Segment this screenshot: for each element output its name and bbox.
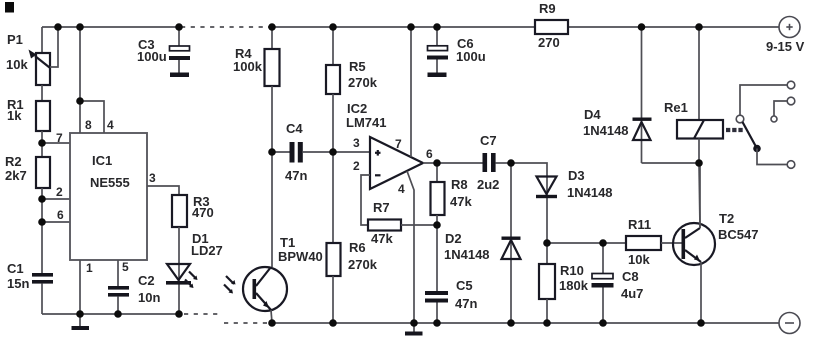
node D4 Re1	[695, 159, 703, 167]
diode D3	[511, 163, 557, 243]
svg-text:C2: C2	[138, 273, 155, 288]
wire bottom rail left	[42, 313, 179, 315]
svg-text:C4: C4	[286, 121, 303, 136]
svg-text:C7: C7	[480, 133, 497, 148]
wire base T2	[547, 242, 626, 244]
svg-text:2u2: 2u2	[477, 177, 499, 192]
wire R4 from rail	[271, 27, 273, 49]
node rail R6	[329, 319, 337, 327]
transistor T2	[673, 223, 715, 265]
svg-text:47n: 47n	[285, 168, 307, 183]
wire P1 wiper	[50, 27, 58, 67]
svg-text:6: 6	[426, 147, 433, 161]
wire node to R6	[332, 152, 334, 243]
svg-text:10k: 10k	[6, 57, 28, 72]
svg-text:4u7: 4u7	[621, 286, 643, 301]
wire C2 to rail	[117, 297, 119, 314]
wire pin2	[42, 198, 70, 200]
node C4 left	[268, 148, 276, 156]
wire R5 to node	[332, 94, 334, 152]
node rail C8	[599, 319, 607, 327]
resistor R7	[368, 220, 401, 231]
node rail pin1	[76, 310, 84, 318]
wire R4 to T1	[271, 86, 273, 267]
svg-text:1N4148: 1N4148	[583, 123, 629, 138]
svg-text:2k7: 2k7	[5, 168, 27, 183]
svg-text:R2: R2	[5, 154, 22, 169]
node pin7 rail	[407, 23, 415, 31]
bottom rail solid	[269, 322, 779, 324]
svg-text:D2: D2	[445, 231, 462, 246]
svg-text:270: 270	[538, 35, 560, 50]
wire top rail dashed segment	[181, 26, 268, 28]
capacitor C6 electrolytic	[427, 27, 448, 77]
svg-text:D3: D3	[568, 168, 585, 183]
svg-text:8: 8	[85, 118, 92, 132]
pin 5 wire	[117, 260, 119, 286]
svg-text:100u: 100u	[456, 49, 486, 64]
svg-text:47n: 47n	[455, 296, 477, 311]
node D3 R10	[543, 239, 551, 247]
capacitor C3 electrolytic	[169, 27, 190, 77]
bottom rail dashed right	[224, 322, 269, 324]
potentiometer P1	[29, 50, 51, 86]
capacitor C7	[483, 153, 512, 172]
svg-text:3: 3	[149, 171, 156, 185]
svg-text:270k: 270k	[348, 257, 378, 272]
wire C1 to rail	[41, 284, 43, 314]
wire relay junction to T2	[699, 163, 700, 228]
relay Re1 coil	[677, 27, 723, 163]
svg-text:270k: 270k	[348, 75, 378, 90]
resistor R5	[326, 65, 340, 94]
svg-text:LD27: LD27	[191, 243, 223, 258]
svg-text:D4: D4	[584, 107, 601, 122]
svg-text:R10: R10	[560, 263, 584, 278]
wire top rail left	[42, 26, 179, 28]
wire T2 emitter to rail	[700, 262, 702, 323]
svg-text:4: 4	[398, 182, 405, 196]
pin 1 wire	[79, 260, 81, 314]
node rail T2	[697, 319, 705, 327]
resistor R9	[535, 20, 568, 34]
resistor R2	[36, 157, 50, 188]
svg-text:470: 470	[192, 205, 214, 220]
node C8 base	[599, 239, 607, 247]
node R5 rail	[329, 23, 337, 31]
svg-text:LM741: LM741	[346, 115, 386, 130]
node R7 R8	[433, 221, 441, 229]
svg-text:2: 2	[353, 159, 360, 173]
node pin8 rail	[76, 23, 84, 31]
contact terminal A	[740, 81, 795, 115]
capacitor C1	[32, 273, 53, 284]
svg-text:10n: 10n	[138, 290, 160, 305]
svg-text:T2: T2	[719, 211, 734, 226]
node pin2 IC1	[38, 195, 46, 203]
svg-text:IC1: IC1	[92, 153, 112, 168]
relay mechanical link	[726, 128, 745, 132]
svg-text:NE555: NE555	[90, 175, 130, 190]
svg-text:180k: 180k	[559, 278, 589, 293]
svg-text:47k: 47k	[450, 194, 472, 209]
svg-text:7: 7	[395, 137, 402, 151]
svg-text:R11: R11	[628, 217, 651, 232]
node R4 rail	[268, 23, 276, 31]
svg-text:6: 6	[57, 208, 64, 222]
wire R5 from rail	[332, 27, 334, 65]
wire output pin6	[423, 162, 483, 164]
node output R8	[433, 159, 441, 167]
node rail D1	[175, 310, 183, 318]
switch arm	[743, 122, 788, 165]
contact terminal C	[787, 161, 795, 169]
node rail gnd	[410, 319, 418, 327]
LED D1	[166, 264, 198, 288]
diode D4	[633, 27, 700, 163]
svg-text:R9: R9	[539, 1, 556, 16]
capacitor C4	[272, 142, 333, 163]
svg-text:R8: R8	[451, 177, 468, 192]
wire pin7	[42, 142, 70, 144]
bottom rail dashed left	[184, 313, 219, 315]
capacitor C8 electrolytic	[592, 243, 614, 323]
svg-text:100u: 100u	[137, 49, 167, 64]
svg-text:1k: 1k	[7, 108, 22, 123]
wire top rail right	[568, 26, 779, 28]
resistor R3	[172, 195, 187, 227]
svg-text:IC2: IC2	[347, 101, 367, 116]
wire R6 to rail	[332, 276, 334, 323]
pin 3 wire	[147, 186, 179, 195]
phototransistor T1	[224, 267, 287, 311]
corner marker square	[5, 2, 14, 13]
node rail R10	[543, 319, 551, 327]
ground IC1	[72, 314, 90, 330]
ground opamp	[405, 323, 423, 336]
resistor R8	[431, 163, 445, 225]
svg-text:2: 2	[56, 185, 63, 199]
resistor R6	[327, 243, 341, 276]
IC1 box	[70, 133, 147, 260]
svg-text:47k: 47k	[371, 231, 393, 246]
node pin8 pin4	[76, 97, 84, 105]
plus terminal	[779, 17, 800, 38]
svg-text:BC547: BC547	[718, 227, 758, 242]
node rail D2	[507, 319, 515, 327]
svg-text:C8: C8	[622, 269, 639, 284]
wire R1 to R2	[41, 131, 43, 157]
wire R11 to base	[661, 242, 682, 244]
wire pin7 to rail	[410, 27, 412, 157]
node rail C5	[433, 319, 441, 327]
node D4 rail	[638, 23, 646, 31]
pin 8 wire and pin 4 wire	[80, 27, 104, 133]
node C7 D2	[507, 159, 515, 167]
svg-text:5: 5	[122, 260, 129, 274]
wire R7 to R8 node	[401, 224, 437, 226]
node pin6 IC1	[38, 218, 46, 226]
svg-text:15n: 15n	[7, 276, 29, 291]
op-amp IC2	[370, 137, 423, 189]
diode D2	[502, 163, 521, 323]
svg-text:T1: T1	[280, 235, 295, 250]
svg-text:BPW40: BPW40	[278, 249, 323, 264]
svg-text:Re1: Re1	[664, 100, 688, 115]
resistor R4	[265, 49, 280, 86]
wire P1 top	[41, 27, 43, 53]
wire pin6	[42, 221, 70, 223]
node pin3 opamp	[329, 148, 337, 156]
svg-text:100k: 100k	[233, 59, 263, 74]
contact fixed point	[771, 116, 777, 122]
node pin7 IC1	[38, 139, 46, 147]
wire R3 to D1	[178, 227, 180, 314]
node rail T1	[268, 319, 276, 327]
wire T2 collector	[699, 163, 701, 228]
svg-text:C1: C1	[7, 261, 24, 276]
node rail C2	[114, 310, 122, 318]
resistor R10	[539, 243, 555, 323]
wire pin2 feedback	[361, 175, 370, 225]
wire R2 to C1	[41, 188, 43, 273]
contact terminal B	[774, 97, 795, 116]
resistor R1	[36, 101, 50, 131]
contact pivot	[736, 115, 744, 123]
wire P1 to R1	[41, 85, 43, 101]
svg-text:P1: P1	[7, 32, 23, 47]
svg-text:7: 7	[56, 131, 63, 145]
svg-text:10k: 10k	[628, 252, 650, 267]
svg-text:C5: C5	[456, 278, 473, 293]
svg-text:3: 3	[353, 136, 360, 150]
wire T1 emitter to rail	[271, 310, 272, 323]
svg-text:4: 4	[107, 118, 114, 132]
node C6 rail	[433, 23, 441, 31]
node Re1 rail	[695, 23, 703, 31]
node C3 rail	[175, 23, 183, 31]
svg-text:R5: R5	[349, 59, 366, 74]
svg-text:1: 1	[86, 261, 93, 275]
wire pin4 to ground rail	[407, 171, 414, 323]
svg-text:9-15 V: 9-15 V	[766, 39, 805, 54]
wire pin3 opamp	[333, 151, 370, 153]
capacitor C5	[425, 225, 448, 323]
wire top rail middle	[268, 26, 535, 28]
resistor R11	[626, 236, 661, 250]
minus terminal	[779, 313, 800, 334]
svg-text:1N4148: 1N4148	[567, 185, 613, 200]
capacitor C2	[108, 286, 129, 297]
svg-text:R7: R7	[373, 200, 390, 215]
svg-text:1N4148: 1N4148	[444, 247, 490, 262]
svg-text:R6: R6	[349, 240, 366, 255]
node wiper rail	[54, 23, 62, 31]
